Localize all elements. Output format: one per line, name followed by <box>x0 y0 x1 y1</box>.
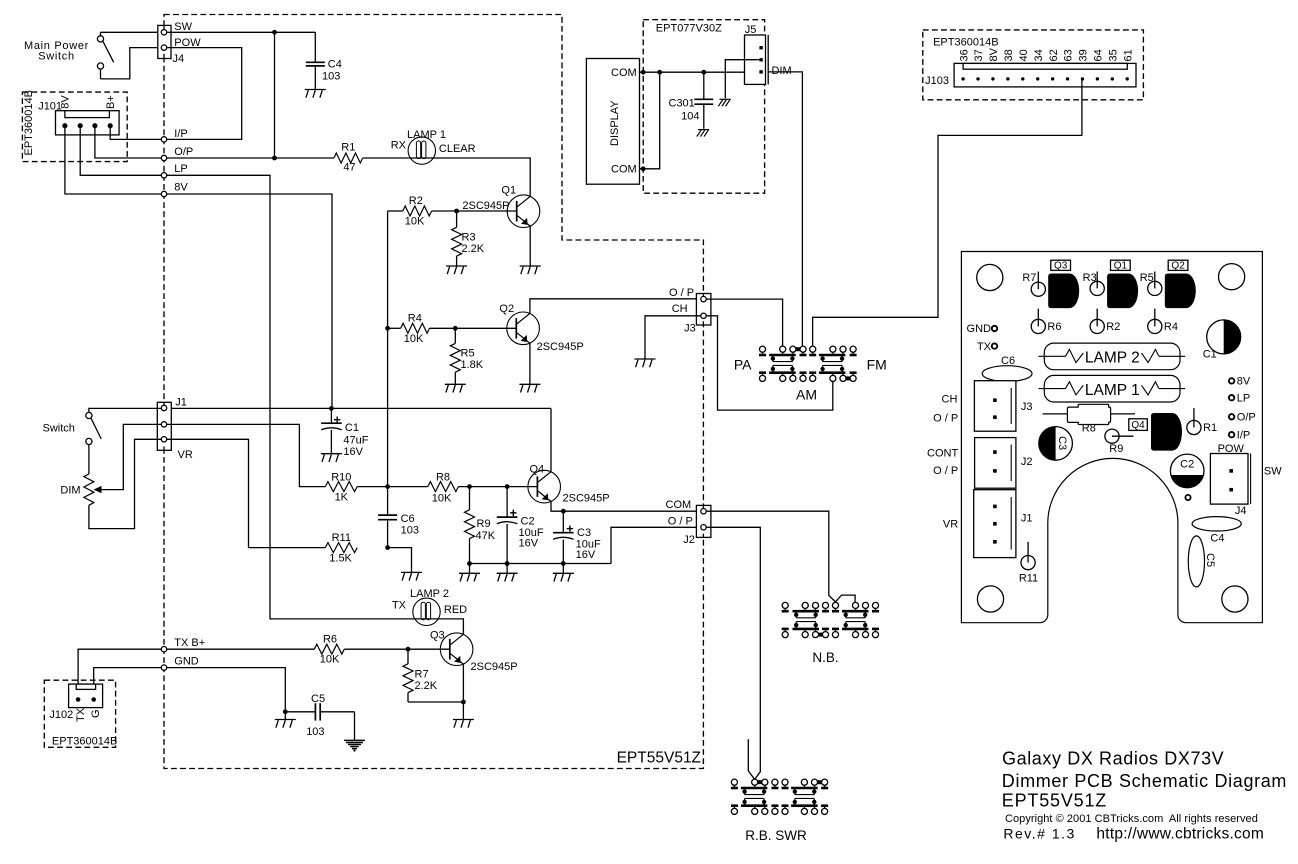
wire 8V-branch vertical to R2 <box>387 211 389 328</box>
svg-text:2SC945P: 2SC945P <box>563 493 610 505</box>
junction R11/C6 <box>385 545 390 550</box>
svg-text:EPT55V51Z: EPT55V51Z <box>617 750 701 767</box>
PCB transistor Q1 body <box>1107 274 1138 309</box>
junction R8/R9 <box>467 484 472 489</box>
wire LAMP1 to Q1 collector <box>408 158 530 196</box>
svg-text:1.5K: 1.5K <box>329 552 352 564</box>
svg-text:CONT: CONT <box>927 447 958 459</box>
wire Q1 emitter to ground <box>529 226 531 266</box>
ground rail under C2/C3 <box>470 563 612 565</box>
wire R1 to LAMP1 <box>363 157 409 159</box>
wire O/P to R1 <box>167 157 334 159</box>
svg-text:Q3: Q3 <box>1054 261 1068 272</box>
junction R10/R8/C6 <box>385 484 390 489</box>
svg-text:Switch: Switch <box>43 423 75 435</box>
wire switch to J1 pin1 <box>89 408 161 412</box>
svg-text:TX B+: TX B+ <box>174 637 205 649</box>
ground at R5 <box>445 383 466 385</box>
PCB transistor Q4 body <box>1151 413 1182 451</box>
svg-text:RED: RED <box>444 604 467 616</box>
svg-text:I/P: I/P <box>174 128 187 140</box>
svg-text:R4: R4 <box>408 313 422 325</box>
wire J2 O/P to R.B. SWR <box>706 527 760 779</box>
PCB TX test point <box>992 343 997 348</box>
svg-text:R6: R6 <box>323 634 337 646</box>
svg-text:J5: J5 <box>745 24 757 36</box>
svg-text:R8: R8 <box>436 472 450 484</box>
svg-text:C1: C1 <box>1203 349 1217 361</box>
PCB capacitor C5 <box>1188 536 1204 587</box>
svg-text:103: 103 <box>401 525 419 537</box>
J1 pin 1 <box>161 405 166 410</box>
J1 pin 3 (VR) <box>161 437 166 442</box>
wire rail to J2 O/P pin <box>611 527 701 563</box>
svg-text:C301: C301 <box>669 98 695 110</box>
J3 pin CH <box>701 313 706 318</box>
PCB GND test point <box>992 326 997 331</box>
svg-text:C3: C3 <box>1056 436 1068 450</box>
PCB mounting hole top-right <box>1219 264 1245 290</box>
J103 pin 36 <box>961 77 964 80</box>
junction C301 top <box>701 70 706 75</box>
svg-text:J1: J1 <box>1021 513 1033 525</box>
display module dashed boundary EPT077V30Z <box>643 20 764 194</box>
J101 pin 4 <box>108 123 113 128</box>
resistor R11 <box>325 543 357 553</box>
connector J103 dashed box EPT360014B <box>923 30 1144 100</box>
J4 pin POW <box>161 45 166 50</box>
potentiometer DIM <box>84 474 94 505</box>
wire J101 pin2 to LP pin <box>80 127 161 175</box>
svg-text:Galaxy DX Radios DX73V: Galaxy DX Radios DX73V <box>1002 748 1224 768</box>
wire R7 to emitter junction <box>408 701 463 703</box>
svg-text:COM: COM <box>666 499 692 511</box>
svg-text:R3: R3 <box>462 232 476 244</box>
PCB test point below C2 <box>1185 495 1190 500</box>
resistor R8 <box>428 482 459 492</box>
wire DIM bottom to J1 pin3 <box>89 439 161 528</box>
svg-text:J4: J4 <box>1235 505 1247 517</box>
pin O/P <box>161 155 166 160</box>
svg-text:64: 64 <box>1093 49 1105 61</box>
wire TX B+ to J102 pin1 <box>78 649 161 697</box>
svg-text:G: G <box>90 709 102 718</box>
junction COM loop <box>657 70 662 75</box>
svg-text:C3: C3 <box>577 527 591 539</box>
dim switch <box>86 412 92 418</box>
svg-text:FM: FM <box>867 357 887 373</box>
mode switch PA/AM/FM <box>759 346 765 352</box>
PCB capacitor C1 <box>1207 320 1241 354</box>
svg-text:TX: TX <box>392 600 407 612</box>
ground at J5 <box>720 98 731 100</box>
PCB mounting hole bottom-left <box>977 586 1003 612</box>
connector J1 box <box>157 402 171 450</box>
wire J101 pin3 to O/P pin <box>95 127 161 158</box>
svg-text:R1: R1 <box>341 142 355 154</box>
svg-text:COM: COM <box>611 164 637 176</box>
svg-text:AM: AM <box>796 386 817 402</box>
wire R2 to Q1 base <box>432 210 517 212</box>
svg-text:DIM: DIM <box>772 65 792 77</box>
svg-text:COM: COM <box>611 67 637 79</box>
svg-text:I/P: I/P <box>1237 429 1250 441</box>
svg-text:R2: R2 <box>409 195 423 207</box>
svg-text:37: 37 <box>973 49 985 61</box>
svg-text:TX: TX <box>75 707 87 722</box>
svg-text:EPT360014B: EPT360014B <box>23 90 35 155</box>
svg-text:J102: J102 <box>49 709 73 721</box>
PCB R3 pad <box>1096 272 1098 289</box>
wire down to Q4 collector <box>550 408 552 471</box>
svg-text:B+: B+ <box>105 95 117 109</box>
ground at C301 <box>698 129 709 131</box>
resistor R1 <box>334 153 363 163</box>
PCB label box Q4 <box>1129 419 1148 431</box>
wire LP run to LAMP2 <box>167 175 409 619</box>
junction R2/R3 <box>454 209 459 214</box>
svg-text:O/P: O/P <box>174 146 193 158</box>
svg-text:8V: 8V <box>60 95 72 109</box>
PCB LP test point <box>1229 395 1234 400</box>
wire Q2 collector to J3 O/P <box>530 299 701 314</box>
ground at Q2 emitter <box>519 383 540 385</box>
capacitor C4 <box>314 32 316 61</box>
svg-text:R7: R7 <box>1022 272 1036 284</box>
svg-text:8V: 8V <box>988 47 1000 61</box>
wire J2 COM to N.B. block <box>706 511 835 602</box>
svg-text:R10: R10 <box>331 472 351 484</box>
svg-text:VR: VR <box>178 449 193 461</box>
switch block R.B. SWR <box>731 779 737 785</box>
J103 pin 34 <box>1036 77 1039 80</box>
svg-text:LP: LP <box>174 163 187 175</box>
connector J101 body <box>56 111 120 135</box>
svg-text:VR: VR <box>943 519 958 531</box>
wire J3 O/P to mode switch <box>706 299 782 346</box>
ground at R3 <box>446 265 467 267</box>
wire switch to DIM pot <box>88 445 90 474</box>
wire SW pin to C4 and O/P branch <box>167 31 316 33</box>
PCB mounting hole top-left <box>977 264 1003 290</box>
capacitor C1 47uF <box>330 408 332 423</box>
svg-text:C6: C6 <box>401 513 415 525</box>
capacitor C6 <box>387 487 389 515</box>
svg-text:LAMP 2: LAMP 2 <box>410 588 449 600</box>
ground at GND wire <box>275 719 296 721</box>
junction SW/OP vertical <box>272 30 277 35</box>
junction R4/R5 <box>453 326 458 331</box>
svg-text:1K: 1K <box>335 492 349 504</box>
COM top pin dot <box>641 70 646 75</box>
PCB R2 pad <box>1096 309 1098 327</box>
J103 pin 64 <box>1096 77 1099 80</box>
svg-text:2SC945P: 2SC945P <box>462 200 509 212</box>
svg-text:EPT55V51Z: EPT55V51Z <box>1002 791 1107 811</box>
svg-text:R.B. SWR: R.B. SWR <box>745 828 807 843</box>
transistor Q1 2SC945P <box>507 195 540 228</box>
wire COM loop to COM bottom <box>640 72 660 169</box>
svg-text:47: 47 <box>343 162 355 174</box>
PCB R6 pad <box>1037 309 1039 327</box>
capacitor C2 10uF <box>506 487 508 517</box>
J5 pin 3 <box>759 70 762 73</box>
J5 pin 1 <box>759 46 762 49</box>
resistor R10 <box>325 482 357 492</box>
svg-text:SW: SW <box>1264 466 1282 478</box>
PCB R5 pad <box>1154 272 1156 289</box>
svg-text:RX: RX <box>391 140 407 152</box>
PCB resistor R8 <box>1043 413 1068 415</box>
wire switch to J4 SW pin <box>101 31 162 33</box>
wire CH to ground <box>645 316 701 359</box>
svg-text:R11: R11 <box>332 532 351 544</box>
connector J103 body <box>954 63 1136 87</box>
svg-text:104: 104 <box>681 111 699 123</box>
svg-text:LAMP 1: LAMP 1 <box>407 129 446 141</box>
pin TX B+ <box>161 647 166 652</box>
svg-text:Dimmer PCB Schematic Diagram: Dimmer PCB Schematic Diagram <box>1002 771 1287 791</box>
svg-text:R6: R6 <box>1047 321 1061 333</box>
PCB R7 pad <box>1037 272 1039 290</box>
svg-text:C4: C4 <box>1210 533 1224 545</box>
svg-text:C1: C1 <box>345 422 359 434</box>
connector J102 body <box>69 684 103 708</box>
DISPLAY block <box>586 59 639 185</box>
resistor R3 <box>456 211 458 227</box>
PCB transistor Q3 body <box>1048 274 1079 309</box>
COM bottom pin dot <box>641 166 646 171</box>
J103 pin 37 <box>976 77 979 80</box>
PCB board outline <box>961 252 1262 623</box>
wire R10 to junction <box>357 486 387 488</box>
J102 pin 1 <box>76 697 81 702</box>
PCB label box Q2 <box>1168 260 1188 270</box>
resistor R7 <box>407 649 409 664</box>
J103 pin 40 <box>1021 77 1024 80</box>
svg-text:103: 103 <box>322 71 340 83</box>
J2 pin O/P <box>701 525 706 530</box>
PCB LAMP 2 footprint <box>1044 343 1180 370</box>
wire R4 to Q2 base <box>430 327 517 329</box>
svg-text:R2: R2 <box>1106 321 1120 333</box>
svg-text:CLEAR: CLEAR <box>439 143 476 155</box>
J4 pin SW <box>161 30 166 35</box>
transistor Q4 2SC945P <box>528 470 561 503</box>
wire LAMP2 to Q3 collector <box>408 619 463 634</box>
junction C1 node <box>329 406 334 411</box>
junction R6/R7 <box>406 647 411 652</box>
svg-text:35: 35 <box>1108 49 1120 61</box>
ground at C3 <box>553 572 574 574</box>
svg-text:103: 103 <box>306 726 324 738</box>
svg-text:16V: 16V <box>343 446 363 458</box>
wire J103 pin 39 to mode switch <box>813 79 1082 346</box>
J103 pin 39 <box>1081 77 1084 80</box>
svg-text:LAMP 2: LAMP 2 <box>1085 350 1140 367</box>
svg-text:http://www.cbtricks.com: http://www.cbtricks.com <box>1096 825 1264 842</box>
svg-text:C5: C5 <box>1204 553 1216 567</box>
PCB connector J2 <box>975 438 1016 489</box>
ground at R9 <box>459 572 480 574</box>
svg-text:O / P: O / P <box>933 413 958 425</box>
svg-text:Q2: Q2 <box>499 303 514 315</box>
svg-text:J2: J2 <box>683 534 695 546</box>
junction C3 top <box>561 509 566 514</box>
PCB LAMP 1 footprint <box>1044 375 1180 402</box>
PCB mounting hole bottom-right <box>1222 586 1248 612</box>
svg-text:J3: J3 <box>1021 401 1033 413</box>
J103 pin 38 <box>1006 77 1009 80</box>
svg-text:Q3: Q3 <box>430 629 445 641</box>
transistor Q2 2SC945P <box>507 312 540 345</box>
svg-text:R9: R9 <box>477 518 491 530</box>
svg-text:EPT077V30Z: EPT077V30Z <box>656 22 722 34</box>
wire J5 middle pin to ground <box>725 60 759 98</box>
resistor R6 <box>314 644 344 654</box>
PCB connector J1 <box>974 490 1016 558</box>
resistor R5 <box>454 328 456 343</box>
svg-text:8V: 8V <box>1237 376 1251 388</box>
junction on O/P wire <box>272 156 277 161</box>
PCB R11 pad <box>1027 542 1029 563</box>
wire Q3 emitter down <box>462 664 464 702</box>
ground at C2 <box>497 572 518 574</box>
resistor R9 <box>469 487 471 510</box>
wire CH to mode switch (AM) <box>706 316 833 410</box>
svg-text:Switch: Switch <box>38 51 75 63</box>
capacitor C5 103 <box>285 711 314 713</box>
wire J1 pin3 to R11 <box>167 439 326 547</box>
svg-text:J4: J4 <box>173 53 185 65</box>
switch block N.B. <box>782 602 788 608</box>
main power switch <box>97 36 103 42</box>
J102 pin 2 <box>91 697 96 702</box>
PCB capacitor C3 <box>1039 427 1073 461</box>
earth ground at C5 <box>354 712 356 740</box>
wire switch to J4 POW pin <box>101 48 162 79</box>
wire 8V run down to C1 node <box>167 194 332 408</box>
svg-text:16V: 16V <box>519 537 539 549</box>
svg-text:R3: R3 <box>1083 272 1097 284</box>
PCB capacitor C4 <box>1192 517 1241 531</box>
svg-text:SW: SW <box>174 21 192 33</box>
junction rail R9 <box>467 561 472 566</box>
PCB label box Q1 <box>1111 260 1131 270</box>
wire TX B+ to R6 <box>167 648 315 650</box>
J5 pin 2 <box>759 58 762 61</box>
connector J2 box <box>696 505 711 537</box>
wire J101 pin1 to 8V pin <box>65 127 161 194</box>
wire Q2 emitter to ground <box>529 343 531 384</box>
J101 pin 3 <box>92 123 97 128</box>
svg-text:16V: 16V <box>576 549 596 561</box>
svg-text:CH: CH <box>942 393 958 405</box>
PCB connector J4 <box>1210 454 1248 505</box>
svg-text:R9: R9 <box>1109 443 1123 455</box>
svg-text:C6: C6 <box>1001 355 1015 367</box>
svg-text:R1: R1 <box>1203 422 1217 434</box>
svg-text:J103: J103 <box>925 75 949 87</box>
lamp LAMP 1 <box>408 137 435 164</box>
capacitor C301 104 <box>703 72 705 98</box>
wire GND to J102 pin2 <box>94 668 162 698</box>
svg-text:O / P: O / P <box>668 515 693 527</box>
svg-text:Rev.# 1.3: Rev.# 1.3 <box>1003 825 1075 841</box>
svg-text:C5: C5 <box>311 693 325 705</box>
svg-text:LAMP 1: LAMP 1 <box>1085 382 1140 399</box>
ground at Q3 emitter <box>453 719 474 721</box>
svg-text:10K: 10K <box>432 493 452 505</box>
wire POW to I/P <box>167 48 242 140</box>
R.B. SWR arrow second stroke <box>748 739 754 779</box>
svg-text:R8: R8 <box>1082 423 1096 435</box>
ground at C4 <box>305 89 326 91</box>
svg-text:2SC945P: 2SC945P <box>537 341 584 353</box>
svg-text:J2: J2 <box>1021 456 1033 468</box>
svg-text:R5: R5 <box>1140 272 1154 284</box>
ground at C1 <box>321 453 342 455</box>
svg-text:8V: 8V <box>174 182 188 194</box>
svg-text:Q4: Q4 <box>530 464 545 476</box>
junction rail C3 <box>561 561 566 566</box>
svg-text:R5: R5 <box>461 348 475 360</box>
pin I/P <box>161 137 166 142</box>
junction C2 top <box>505 484 510 489</box>
svg-text:CH: CH <box>672 303 688 315</box>
svg-text:Q4: Q4 <box>1131 420 1145 431</box>
wire Q4 emitter to COM <box>551 502 701 512</box>
svg-text:61: 61 <box>1122 49 1134 61</box>
connector J101 dashed box EPT360014B <box>22 92 127 162</box>
PCB I/P test point <box>1229 432 1234 437</box>
svg-text:O/P: O/P <box>1237 412 1256 424</box>
J3 pin O/P <box>701 296 706 301</box>
junction rail C2 <box>505 561 510 566</box>
J2 pin COM <box>701 509 706 514</box>
svg-text:N.B.: N.B. <box>812 650 838 665</box>
connector J4 box <box>158 25 171 58</box>
svg-text:40: 40 <box>1018 49 1030 61</box>
PCB capacitor C6 <box>982 366 1032 382</box>
wire R6 to Q3 base <box>344 648 450 650</box>
svg-text:2.2K: 2.2K <box>415 680 438 692</box>
wire J1 pin1 node across (switch line) <box>167 407 551 409</box>
PCB R1 pad <box>1193 408 1195 427</box>
PCB R4 pad <box>1154 309 1156 327</box>
wire GND to C5 node <box>167 668 286 712</box>
svg-text:R4: R4 <box>1164 321 1178 333</box>
svg-text:R7: R7 <box>415 669 429 681</box>
svg-text:DISPLAY: DISPLAY <box>609 100 621 146</box>
svg-text:C2: C2 <box>1180 459 1194 471</box>
PCB R9 pad <box>1105 429 1119 443</box>
svg-text:2.2K: 2.2K <box>462 243 485 255</box>
ground at CH <box>635 358 656 360</box>
J1 pin 2 <box>161 422 166 427</box>
transistor Q3 2SC945P <box>440 633 473 666</box>
svg-text:2SC945P: 2SC945P <box>471 661 518 673</box>
J103 pin 63 <box>1066 77 1069 80</box>
pin LP <box>161 173 166 178</box>
PCB O/P test point <box>1229 414 1234 419</box>
svg-text:LP: LP <box>1237 392 1250 404</box>
resistor R2 <box>403 206 432 216</box>
svg-text:Q2: Q2 <box>1171 261 1185 272</box>
wire junction to R8 <box>388 486 428 488</box>
svg-text:10K: 10K <box>404 333 424 345</box>
J101 pin 1 <box>62 123 67 128</box>
